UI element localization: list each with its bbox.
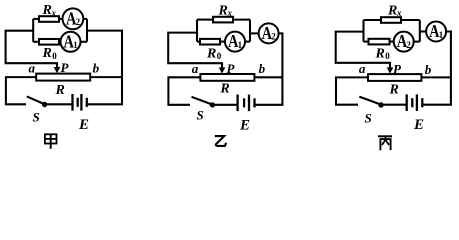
- wire Rx to A2: [59, 18, 63, 20]
- label 乙 (hand drawn): [215, 136, 226, 146]
- svg-text:0: 0: [385, 51, 390, 61]
- wire left bracket to slider (C2): [168, 33, 222, 69]
- wire left bracket to slider (C3): [336, 32, 390, 69]
- resistor Rx (C3): [381, 17, 401, 23]
- svg-text:E: E: [78, 117, 89, 133]
- node right vertical (C3): [419, 20, 421, 42]
- wire rheostat b to right rail (C2): [254, 76, 282, 78]
- svg-text:1: 1: [73, 40, 78, 50]
- svg-text:x: x: [227, 8, 233, 18]
- svg-text:2: 2: [271, 32, 276, 42]
- ammeter A1 (C2) circle: [225, 32, 245, 52]
- svg-text:P: P: [393, 61, 402, 76]
- wire right node to A1 (C3): [420, 30, 426, 32]
- resistor R0 (C3): [369, 39, 390, 45]
- wire top branch right (C3): [401, 19, 420, 21]
- switch pivot dot (C3): [378, 102, 383, 107]
- label 甲 (hand drawn): [45, 134, 57, 149]
- svg-text:E: E: [239, 118, 250, 134]
- wire terminal a bracket + bottom to switch (C3): [336, 77, 368, 104]
- svg-text:0: 0: [52, 51, 57, 61]
- wire switch dot to battery: [47, 103, 72, 105]
- svg-text:a: a: [29, 61, 36, 76]
- wire R0 to A1: [59, 41, 61, 43]
- wire terminal a bracket + bottom to switch (C2): [168, 77, 200, 105]
- svg-text:x: x: [51, 8, 57, 18]
- svg-text:1: 1: [238, 40, 243, 50]
- node right vertical (C2): [249, 20, 251, 42]
- wire right node to A2 (C2): [250, 32, 259, 34]
- rheostat R (C3): [368, 74, 421, 81]
- svg-text:P: P: [227, 61, 236, 76]
- node left vertical: [32, 19, 34, 42]
- wire top branch right (C2): [233, 19, 250, 21]
- svg-text:R: R: [218, 3, 228, 18]
- resistor R0 (C1): [39, 39, 59, 45]
- switch S blade (C2): [192, 97, 212, 105]
- switch pivot dot (C2): [210, 102, 215, 107]
- rheostat R (C2): [200, 74, 254, 81]
- node right vertical: [86, 19, 88, 42]
- svg-text:b: b: [259, 61, 266, 76]
- wire rheostat b to right rail: [90, 76, 122, 78]
- svg-text:P: P: [61, 60, 70, 75]
- wire switch dot to battery (C3): [384, 104, 406, 106]
- wire top branch left (C3): [364, 19, 382, 21]
- wire A2 to right node: [83, 18, 87, 20]
- rheostat R (C1): [36, 74, 90, 81]
- wire bottom branch left (C2): [197, 41, 200, 43]
- battery E (C2) plates: [236, 95, 238, 112]
- battery E (C3) plates: [406, 94, 408, 111]
- ammeter A1 (C1) circle: [61, 32, 81, 52]
- wire bottom branch left: [33, 41, 39, 43]
- wire switch dot to battery (C2): [215, 104, 237, 106]
- wire top branch left: [33, 18, 39, 20]
- wire top branch left (C2): [197, 19, 213, 21]
- svg-text:b: b: [425, 62, 432, 77]
- svg-text:2: 2: [406, 40, 411, 50]
- svg-text:R: R: [219, 82, 229, 97]
- svg-text:1: 1: [439, 30, 444, 40]
- wire rheostat b to right rail (C3): [421, 76, 451, 78]
- svg-text:2: 2: [76, 17, 81, 27]
- svg-text:R: R: [42, 3, 52, 18]
- slider P arrowhead (C3): [387, 67, 394, 73]
- wire A2 to right rail + rail + bottom from battery (C2): [255, 33, 283, 104]
- ammeter A2 (C1) circle: [63, 8, 84, 29]
- svg-text:R: R: [387, 3, 397, 18]
- battery E (C1) plates: [71, 94, 73, 111]
- wire terminal a bracket + bottom to switch: [6, 77, 36, 104]
- svg-text:R: R: [55, 83, 65, 98]
- ammeter A2 (C2) circle: [259, 23, 279, 43]
- svg-text:E: E: [413, 117, 424, 133]
- svg-text:R: R: [389, 83, 399, 98]
- svg-text:S: S: [197, 108, 204, 123]
- resistor Rx (C2): [213, 17, 233, 23]
- svg-text:a: a: [192, 61, 199, 76]
- resistor Rx (C1): [39, 16, 59, 22]
- wire output + right rail + bottom wire from battery: [87, 31, 122, 105]
- wire R0 to A1 (C2): [220, 41, 225, 43]
- svg-text:S: S: [365, 111, 372, 126]
- svg-text:b: b: [93, 61, 100, 76]
- node left vertical (C2): [196, 20, 198, 42]
- svg-text:S: S: [33, 110, 40, 125]
- resistor R0 (C2): [200, 39, 220, 45]
- svg-text:R: R: [42, 46, 52, 61]
- svg-text:R: R: [375, 47, 385, 62]
- label 丙 (hand drawn): [378, 136, 392, 150]
- wire A2 to right node (C3): [414, 41, 420, 43]
- wire A1 to right node: [81, 41, 88, 43]
- slider P arrowhead (C2): [219, 67, 226, 73]
- wire A1 to right rail + rail + bottom from battery (C3): [422, 32, 451, 105]
- svg-text:a: a: [359, 61, 366, 76]
- wire R0 to A2 (C3): [390, 41, 394, 43]
- wire bottom branch left (C3): [364, 41, 369, 43]
- svg-text:0: 0: [217, 51, 222, 61]
- switch S blade: [27, 96, 44, 104]
- switch S blade (C3): [359, 97, 380, 105]
- svg-text:x: x: [396, 8, 402, 18]
- switch pivot dot (C1): [42, 102, 47, 107]
- ammeter A1 (C3) circle: [426, 22, 446, 42]
- ammeter A2 (C3) circle: [394, 32, 414, 52]
- node left vertical (C3): [362, 20, 364, 42]
- svg-text:R: R: [206, 47, 216, 62]
- slider P arrowhead (C1): [54, 67, 61, 73]
- wire A1 to right node (C2): [245, 41, 250, 43]
- wire left bracket to slider (node to P feed): [6, 31, 57, 68]
